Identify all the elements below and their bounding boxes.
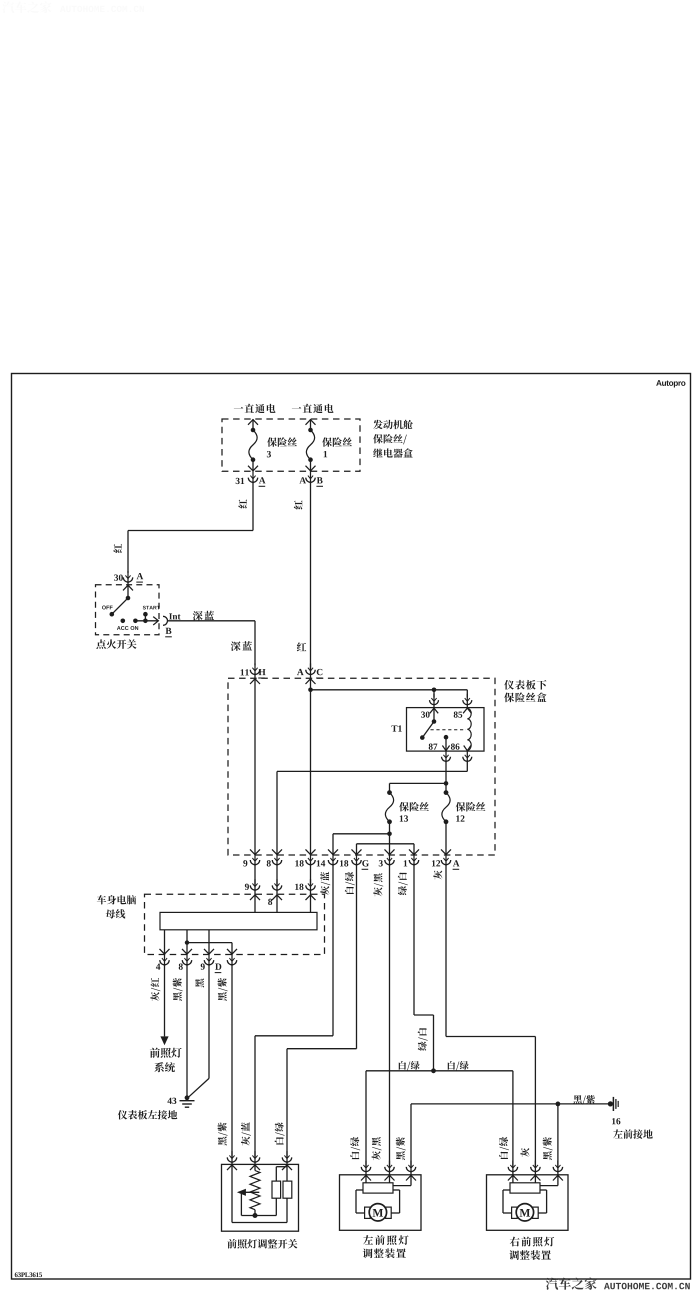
resistor R1 [272,1167,287,1216]
relay pin 86 label [451,743,460,749]
label white/green 3 [350,1137,360,1159]
BCM output D [187,943,237,955]
label gray/black 2 [372,1137,382,1160]
fuse F12 label [456,802,486,822]
label white/green right [448,1061,469,1071]
pin 14 connector [317,854,338,867]
wire dark blue [168,621,256,666]
wire D to switch [231,965,233,1158]
wire fuse12 to pin 12 [441,822,451,855]
label left front ground [613,1129,653,1138]
BCM pin 9b connector [201,954,214,970]
ground G16 [608,1097,618,1111]
relay coil 85-86 [464,708,471,750]
engine box label [373,420,413,458]
faint scan artifact [2,1,144,13]
BCM output 4 [160,930,170,955]
label gray 2 [520,1148,529,1157]
pin 12-A connector [432,854,460,870]
ignition switch box [96,585,160,635]
label ignition switch [96,639,136,649]
wire white/green left branch [366,1071,434,1167]
wire red from fuse1 [310,482,312,669]
white/green junction [431,1068,436,1073]
label headlamp system [150,1048,182,1073]
BCM pin D connector [215,954,237,973]
BCM pin 8b connector [179,954,192,970]
wire 12 gray to right device [446,865,535,1167]
wire to headlamp system [160,965,168,1045]
label wire black/purple 1 [173,978,183,1001]
relay pin 30 label [421,711,430,717]
label black/purple 4 [396,1137,406,1160]
label wire gray/black [373,873,383,896]
BCM output 9 [204,930,214,955]
relay switch arm [420,722,434,740]
fuse F3 label [267,437,297,457]
motor M1 left headlamp adjuster [340,1161,422,1259]
label wire gray/red [150,978,160,1001]
contact ON [133,619,138,624]
logo Autopro [656,380,685,387]
wire 86 to pin 8 [272,761,467,855]
wire pin18 to BCM [310,865,312,885]
BCM output 8 [182,930,192,955]
fuse F13 [385,790,393,824]
pin 8 connector [267,854,282,867]
wire 9 into bus [250,890,260,913]
relay mechanical link [431,729,467,731]
relay T1 box [407,708,485,752]
engine fuse/relay box [222,419,360,471]
label white/green 4 [499,1137,509,1159]
BCM label [97,895,136,918]
wire 9 to ground 43 [188,965,209,1098]
connector 30-A [114,571,143,583]
BCM pin 18 connector [295,879,315,891]
wire relay feed [311,688,468,698]
wire 87 to fuses [444,761,449,792]
pin 1 connector [404,854,419,867]
BCM pin 9 connector [245,879,260,891]
wire 1 green/white to junction [414,865,434,1071]
pin 18-G connector [340,854,369,870]
wire pin9 to BCM [254,865,256,885]
relay contact 87 [442,735,449,751]
ground G43 [180,1095,195,1107]
watermark [546,1278,690,1290]
label hot-at-all-times left [234,404,276,413]
switch left side wire [232,1164,287,1222]
label wire gray [433,870,442,879]
contact ACC [121,619,126,624]
relay pin 85 label [454,711,463,717]
ignition common node [126,596,131,601]
label red 1 [238,499,247,508]
BCM box [145,894,325,954]
connector 31-A [236,471,266,486]
ground net black/purple [411,1102,610,1167]
label black/purple 6 [573,1095,595,1105]
label OFF [102,606,113,610]
wire 14 gray/blue to switch [255,865,333,1158]
switch conn black/purple [227,1151,236,1163]
wire branch to fuse13 [390,783,447,792]
label headlamp adjustment switch [227,1239,297,1249]
switch lever [110,598,129,617]
bus bar [160,912,317,929]
wire white/green right branch [434,1071,513,1167]
wire fuse13 down [385,822,395,855]
label wire black/purple 2 [218,978,228,1001]
label wire black [195,979,204,988]
rheostat wiper [237,1189,259,1216]
fuse F1 wire bottom [306,460,316,472]
fuse F1 wire top [306,419,316,430]
wire ignition output [135,617,158,625]
fuse F1 [306,428,314,462]
label wire green/white [398,872,408,895]
connector 11-H [241,663,266,678]
label dark blue 1 [193,611,214,621]
relay T1 label [391,725,401,731]
label dark blue 2 [231,641,252,651]
wire branch to pin 14 [328,834,390,855]
label red 2 [294,500,303,509]
label wire white/green 1 [345,872,355,894]
rheostat VR1 [250,1164,260,1215]
wire 8 to ground 43 [186,965,188,1098]
relay pin85 connector [463,694,472,714]
wire 18 into bus [306,890,316,913]
connector A-C [297,663,323,678]
resistor R2 [283,1164,292,1198]
label black/purple 5 [543,1137,553,1160]
headlamp adjustment switch box [222,1162,299,1231]
label wire gray/blue [320,872,330,895]
wire branch to pins 18G and 1 [352,844,420,855]
relay pin30 connector [430,694,439,714]
label white/green left [399,1061,420,1071]
fuse F12 [442,790,450,824]
contact START [143,612,148,623]
switch entry arrows [227,1165,292,1170]
fuse F3 wire top [248,419,258,430]
fuse F3 [249,428,257,462]
fuse F13 label [399,802,429,822]
pin 3 connector [379,854,394,867]
relay switch common [432,708,437,724]
label ON [131,626,139,630]
relay pin87 connector [442,751,451,763]
document number 63PL3615 [15,1272,42,1277]
junction on red feed [308,688,313,693]
fuse F3 wire bottom [248,460,258,472]
pin 18 connector [295,854,315,867]
wire C to pin 18 [306,674,316,855]
label white/green 2 [275,1122,285,1144]
label gray/blue 2 [241,1122,251,1145]
label hot-at-all-times right [292,404,334,413]
switch conn white/green [282,1151,291,1163]
label START [143,606,160,610]
label red 4 [297,642,306,651]
IP fuse box [228,678,495,855]
label black/purple 3 [218,1123,228,1146]
wire 3 gray/black to left device [389,865,391,1167]
label red 3 [113,544,122,553]
BCM pin 8 connector [268,879,282,905]
label IP left ground [118,1110,178,1120]
wire 18G white/green to switch [287,865,357,1158]
border frame [12,374,691,1280]
motor M2 right headlamp adjuster [487,1161,569,1260]
wire 8 into bus [272,890,282,913]
ground 43 label [167,1098,176,1104]
ground 16 label [612,1118,620,1124]
relay pin 87 label [429,743,438,749]
wire pin8 to BCM [276,865,278,885]
IP fuse box label [504,680,546,702]
label green/white 2 [418,1028,428,1051]
wire red from fuse3 [128,482,253,573]
BCM pin 4 connector [156,954,169,970]
connector Int-B [163,613,181,636]
switch bottom node [241,1213,276,1218]
connector A-B [299,471,323,486]
fuse F1 label [322,437,352,457]
wire H to pin 9 [250,674,260,855]
switch conn gray/blue [250,1151,259,1163]
wire into ignition switch [123,582,133,598]
label ACC [117,626,129,630]
pin 9 connector [243,854,259,867]
relay pin86 connector [463,751,472,763]
